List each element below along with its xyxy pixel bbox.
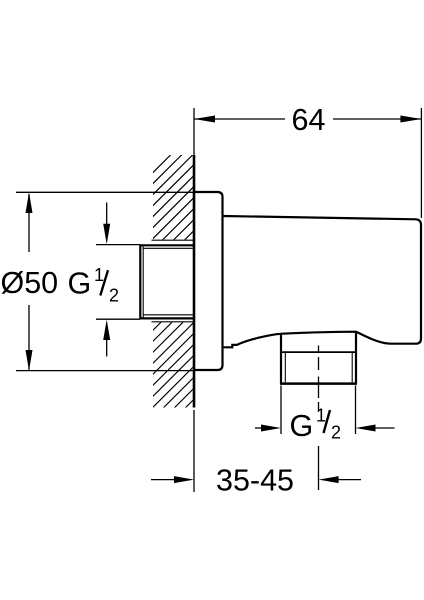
dim inlet thread ext top [96,244,140,246]
dim D50 line [28,194,30,370]
dim inlet thread arrow top [106,203,108,227]
outlet bottom edge [280,382,357,385]
dim inlet thread arrow bottom [106,337,108,357]
dim 35-45 ext left (wall line continuation) [193,410,195,492]
inlet thread outline [140,245,194,318]
dim D50 extension bottom [16,370,194,372]
outlet thread top line [281,351,356,353]
dim outlet G 1/2 ext right [355,386,357,435]
wall hole boundary bottom [152,321,195,323]
inlet thread inner lines [143,246,194,317]
wall surface line [193,155,196,408]
centerline of outlet [318,346,320,491]
svg-text:G: G [290,409,314,443]
outlet left edge [280,334,282,384]
dim 35-45 arrow right [337,479,361,481]
svg-text:G: G [68,267,92,301]
svg-text:2: 2 [331,423,341,443]
svg-text:Ø50: Ø50 [1,266,59,300]
flange outline [194,192,223,370]
wall hatching upper block [106,100,230,517]
svg-text:1: 1 [94,265,104,285]
dim 64 extension line left [193,108,195,155]
dim outlet G 1/2 ext left [280,386,282,435]
dim 64 arrow right [400,116,421,123]
dim D50 extension top [16,191,194,193]
svg-text:64: 64 [292,103,326,137]
dim outlet G 1/2 arrow right [374,427,395,429]
body outline [223,216,422,347]
label G 1/2 inlet: fraction slash [100,270,108,295]
label G 1/2 outlet: fraction slash [324,410,331,433]
wall hatching lower block [109,100,229,517]
dim 64 line [194,118,421,120]
dim 64 arrow left [194,116,215,123]
svg-text:2: 2 [109,285,119,305]
dim outlet G 1/2 arrow left [255,427,264,429]
wall hole boundary top [152,239,195,241]
dim 64 extension line right [420,108,422,218]
dim D50 arrow bottom [26,350,33,371]
dim inlet thread ext bottom [96,318,140,320]
dim D50 arrow top [26,192,33,213]
svg-text:1: 1 [316,405,326,425]
svg-text:35-45: 35-45 [216,464,294,498]
outlet thread inner lines [285,352,352,382]
dim 35-45 arrow left [151,479,176,481]
outlet right edge [355,332,357,384]
